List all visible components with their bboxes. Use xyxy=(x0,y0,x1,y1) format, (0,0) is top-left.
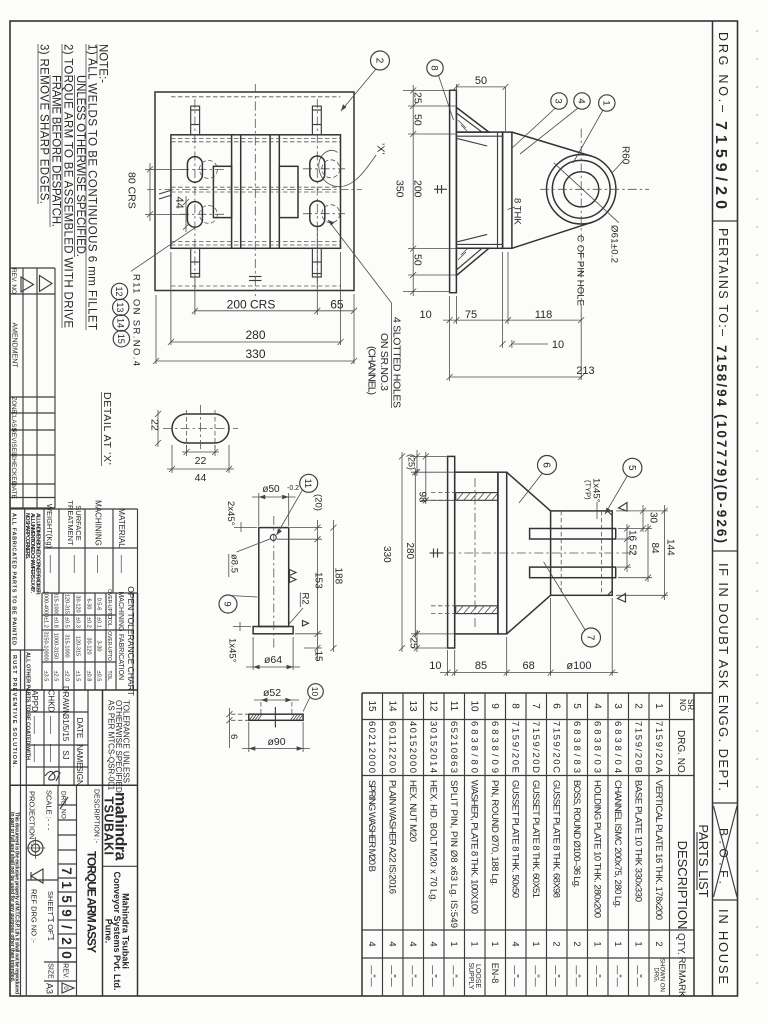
svg-text:65210863: 65210863 xyxy=(448,721,459,773)
svg-text:22: 22 xyxy=(195,455,207,467)
weld symbol bottom center xyxy=(249,276,262,278)
svg-text:REV. NO: REV. NO xyxy=(10,268,17,294)
pin body xyxy=(259,528,289,627)
svg-text:±0.5: ±0.5 xyxy=(64,617,70,628)
svg-text:ø100: ø100 xyxy=(566,660,591,672)
svg-text:’X’: ’X’ xyxy=(375,143,387,155)
top gusset xyxy=(456,107,489,132)
svg-text:ø52: ø52 xyxy=(263,687,281,699)
section mark triangles xyxy=(619,503,628,512)
slot outline xyxy=(172,414,229,443)
svg-text:——: —— xyxy=(94,555,104,573)
svg-text:OPEN TOLERANCE CHART: OPEN TOLERANCE CHART xyxy=(126,586,136,696)
svg-text:REV.: REV. xyxy=(62,963,69,979)
svg-text:13: 13 xyxy=(407,700,418,712)
svg-text:30152014: 30152014 xyxy=(427,721,438,773)
dim 80 CRS xyxy=(149,163,151,221)
gusset tapers xyxy=(507,472,551,511)
svg-text:C OF PIN HOLE: C OF PIN HOLE xyxy=(575,235,586,306)
VIEW D: pin detail xyxy=(219,474,344,670)
channel section xyxy=(456,132,502,248)
svg-text:HEX. HD. BOLT M20 x 70 Lg.: HEX. HD. BOLT M20 x 70 Lg. xyxy=(427,780,438,902)
svg-text:±1.2: ±1.2 xyxy=(43,617,49,628)
svg-text:25: 25 xyxy=(412,92,424,104)
left dim chain 25 50 200 50 and 350 xyxy=(412,85,414,296)
svg-text:2: 2 xyxy=(59,937,74,945)
svg-text:——: —— xyxy=(70,555,80,573)
svg-text:LOOSE: LOOSE xyxy=(474,964,481,988)
svg-text:in part or full and shall not: in part or full and shall not be used fo… xyxy=(9,812,15,983)
svg-text:TORQUE ARM ASSY: TORQUE ARM ASSY xyxy=(85,851,99,953)
dim dia52 xyxy=(260,702,262,714)
svg-text:200: 200 xyxy=(412,180,424,198)
revision table xyxy=(10,268,55,508)
svg-text:13: 13 xyxy=(115,302,125,312)
svg-text:—"—: —"— xyxy=(408,965,418,986)
balloons 12 13 14 15 xyxy=(111,283,127,299)
washer edge-on xyxy=(249,714,303,720)
material-machining-weight table xyxy=(10,500,138,593)
svg-text:153: 153 xyxy=(313,572,324,589)
svg-text:RUST PREVENTIVE SOLUTION.: RUST PREVENTIVE SOLUTION. xyxy=(11,655,17,767)
svg-text:11: 11 xyxy=(303,479,313,488)
svg-text:280: 280 xyxy=(404,543,415,560)
weld symbol xyxy=(434,188,447,190)
dim 44 xyxy=(171,445,173,473)
svg-text:6: 6 xyxy=(541,462,552,468)
VIEW A: plan view of torque arm base assembly xyxy=(111,51,402,408)
svg-text:SHEET 1 OF 1: SHEET 1 OF 1 xyxy=(46,891,55,941)
svg-text:10: 10 xyxy=(419,309,431,321)
leader 4 slotted holes xyxy=(328,220,392,303)
balloon 5 xyxy=(623,458,642,477)
svg-text:2) TORQUE ARM TO BE ASSEM: 2) TORQUE ARM TO BE ASSEMBLED WITH DRIVE xyxy=(62,44,74,328)
svg-text:±0.3: ±0.3 xyxy=(75,617,81,628)
svg-text:ø8.5: ø8.5 xyxy=(229,554,240,573)
svg-text:HOLDING PLATE 10 THK. 280x200: HOLDING PLATE 10 THK. 280x200 xyxy=(591,780,602,918)
VIEW B: side elevation with pin hole xyxy=(394,60,650,381)
svg-text:—"—: —"— xyxy=(592,965,602,986)
svg-text:80 CRS: 80 CRS xyxy=(126,172,138,209)
svg-text:44: 44 xyxy=(173,196,185,208)
slotted holes xyxy=(187,157,202,183)
svg-text:30-120: 30-120 xyxy=(86,637,92,654)
weld symbol xyxy=(430,552,443,554)
svg-text:R2: R2 xyxy=(300,593,311,605)
svg-text:3: 3 xyxy=(612,703,623,709)
svg-text:9: 9 xyxy=(489,703,500,709)
svg-text:85: 85 xyxy=(475,660,487,672)
svg-text:—"—: —"— xyxy=(428,965,438,986)
svg-text:3) REMOVE SHARP EDGES.: 3) REMOVE SHARP EDGES. xyxy=(38,44,50,204)
svg-text:Pune.: Pune. xyxy=(104,919,114,944)
title block xyxy=(9,593,138,996)
svg-text:10: 10 xyxy=(552,339,564,351)
svg-text:50: 50 xyxy=(412,254,424,266)
base plate edge-on xyxy=(448,456,455,648)
svg-text:TOL.: TOL. xyxy=(106,617,112,628)
hidden flange lines xyxy=(171,138,341,140)
balloon 1 xyxy=(599,95,615,111)
svg-text:0.5-6: 0.5-6 xyxy=(96,598,102,611)
svg-text:MATERIAL: MATERIAL xyxy=(117,508,126,548)
svg-text:UNLESS OTHERWISE SPECIFIED.: UNLESS OTHERWISE SPECIFIED. xyxy=(74,75,86,257)
svg-text:1: 1 xyxy=(489,941,500,946)
dia 61 leader diagonal xyxy=(554,163,619,223)
svg-text:4: 4 xyxy=(576,98,587,103)
svg-text:—"—: —"— xyxy=(510,965,520,986)
svg-text:DESCRIPTION: DESCRIPTION xyxy=(675,841,690,930)
svg-text:PIN, ROUND Ø70, 188 Lg.: PIN, ROUND Ø70, 188 Lg. xyxy=(489,780,500,886)
svg-text:——: —— xyxy=(30,716,40,734)
svg-text:213: 213 xyxy=(576,365,594,377)
svg-text:2: 2 xyxy=(374,58,385,64)
svg-text:PARTS LIST: PARTS LIST xyxy=(696,824,711,897)
svg-text:200 CRS: 200 CRS xyxy=(227,298,276,312)
svg-text:Ø61±0.2: Ø61±0.2 xyxy=(609,225,620,263)
svg-text:14: 14 xyxy=(116,318,126,328)
open tolerance chart xyxy=(42,586,138,696)
svg-text:7158/94 (107779)(D-926): 7158/94 (107779)(D-926) xyxy=(714,345,729,543)
svg-text:12: 12 xyxy=(427,700,438,712)
svg-text:——: —— xyxy=(47,744,57,762)
VIEW C: top view of torque arm xyxy=(381,450,676,676)
svg-text:FRAME BEFORE DESPATCH.: FRAME BEFORE DESPATCH. xyxy=(50,75,62,227)
balloon 11 (split pin) xyxy=(300,474,318,492)
centerlines xyxy=(194,99,196,288)
svg-text:——: —— xyxy=(117,555,127,573)
dim 200 CRS xyxy=(194,279,196,315)
svg-text:DRG,: DRG, xyxy=(652,968,658,983)
signature squiggle xyxy=(45,771,60,781)
svg-text:OVER-UPTO: OVER-UPTO xyxy=(106,589,112,619)
svg-text:±0.5: ±0.5 xyxy=(96,671,102,682)
svg-text:1) ALL WELDS TO BE CONTIN: 1) ALL WELDS TO BE CONTINUOUS 6 mm FILLE… xyxy=(86,44,98,330)
svg-text:7: 7 xyxy=(59,867,74,875)
svg-text:SJ: SJ xyxy=(61,750,70,759)
VIEW E: washer detail xyxy=(226,684,323,752)
right dims 30 16 52 84 144 xyxy=(616,510,668,512)
dim 50 top xyxy=(455,84,457,92)
svg-text:9: 9 xyxy=(222,601,233,606)
svg-text:15: 15 xyxy=(366,700,377,712)
svg-text:ALL OTHER PARTS TO BE COATED W: ALL OTHER PARTS TO BE COATED WITH xyxy=(25,652,31,760)
base plate 330x330 outline xyxy=(155,92,354,291)
svg-text:MACHINING: MACHINING xyxy=(94,500,103,546)
weld symbol left edge xyxy=(159,190,172,194)
svg-text:(20): (20) xyxy=(313,494,324,511)
svg-text:IF IN DOUBT ASK ENGG. DEP: IF IN DOUBT ASK ENGG. DEPT. xyxy=(716,563,731,791)
holding plate / channel outline xyxy=(171,135,341,249)
svg-text:2: 2 xyxy=(550,941,561,946)
svg-text:1x45°: 1x45° xyxy=(227,638,238,663)
svg-text:6: 6 xyxy=(550,703,561,709)
svg-text:4: 4 xyxy=(407,941,418,946)
balloon 7 xyxy=(582,628,601,647)
svg-text:SPRING WASHER M20 B: SPRING WASHER M20 B xyxy=(366,780,377,872)
svg-text:1: 1 xyxy=(468,941,479,946)
svg-text:1: 1 xyxy=(591,941,602,946)
svg-text:FABRICATION: FABRICATION xyxy=(117,634,124,680)
svg-text:—"—: —"— xyxy=(449,965,459,986)
svg-text:—"—: —"— xyxy=(572,965,582,986)
svg-text:12: 12 xyxy=(114,286,124,296)
svg-text:68: 68 xyxy=(522,660,534,672)
svg-text:4: 4 xyxy=(427,941,438,946)
svg-text:SIZE: SIZE xyxy=(47,963,54,979)
svg-text:ø64: ø64 xyxy=(264,654,282,666)
svg-text:14: 14 xyxy=(386,700,397,712)
svg-text:DRG. NO.: DRG. NO. xyxy=(675,730,686,776)
svg-text:VERTICAL PLATE 16 THK. 178x200: VERTICAL PLATE 16 THK. 178x200 xyxy=(653,780,664,920)
svg-text:8: 8 xyxy=(509,703,520,709)
torque arm tangent outline xyxy=(512,132,591,156)
bottom gusset xyxy=(456,248,489,275)
svg-text:R60: R60 xyxy=(620,146,631,165)
svg-text:3150-10000: 3150-10000 xyxy=(43,631,49,660)
balloon 3 xyxy=(551,93,567,109)
svg-text:50: 50 xyxy=(412,114,424,126)
svg-text:1: 1 xyxy=(632,941,643,946)
svg-text:±0.1: ±0.1 xyxy=(96,617,102,628)
channel flange sections hatched xyxy=(456,493,498,501)
balloon 8 xyxy=(427,60,443,76)
svg-text:44: 44 xyxy=(195,472,207,484)
svg-text:15: 15 xyxy=(313,651,324,663)
svg-text:WEIGHT(Kg): WEIGHT(Kg) xyxy=(45,504,54,549)
svg-text:TREATMENT: TREATMENT xyxy=(66,500,75,546)
svg-text:DRAWN: DRAWN xyxy=(61,686,70,716)
svg-text:DATE: DATE xyxy=(10,482,17,500)
boss outline xyxy=(551,511,613,595)
svg-text:3-30: 3-30 xyxy=(96,640,102,651)
balloon 9 xyxy=(219,595,237,613)
balloon 6 xyxy=(538,456,557,475)
svg-text:1: 1 xyxy=(530,941,541,946)
dim 10 plate thickness xyxy=(502,252,504,348)
svg-text:4: 4 xyxy=(386,941,397,946)
svg-text:NAME: NAME xyxy=(75,744,84,767)
svg-text:ALL FABRICATED PARTS TO BE PAI: ALL FABRICATED PARTS TO BE PAINTED xyxy=(11,513,17,645)
svg-text:DESCRIPTION :-: DESCRIPTION :- xyxy=(93,789,100,844)
svg-text:30-120: 30-120 xyxy=(75,595,81,612)
svg-text:1: 1 xyxy=(612,941,623,946)
svg-text:120-315: 120-315 xyxy=(64,594,70,614)
svg-text:WASHER, PLATE 8 THK. 100X100: WASHER, PLATE 8 THK. 100X100 xyxy=(468,780,479,914)
svg-text:/: / xyxy=(59,925,74,929)
svg-text:6: 6 xyxy=(228,734,239,739)
svg-text:280: 280 xyxy=(245,328,265,342)
svg-text:(25): (25) xyxy=(407,454,417,470)
split pin hole xyxy=(270,535,276,541)
base plate edge-on xyxy=(450,90,457,292)
svg-text:1: 1 xyxy=(448,941,459,946)
svg-text:——: —— xyxy=(46,555,56,573)
vertical plate xyxy=(498,472,507,634)
svg-text:40152000: 40152000 xyxy=(407,721,418,773)
svg-text:—"—: —"— xyxy=(387,965,397,986)
svg-text:98: 98 xyxy=(417,492,428,504)
tiny fabrication notes column xyxy=(10,509,44,767)
vertical plates cross bars xyxy=(530,529,616,540)
svg-text:EN-8: EN-8 xyxy=(490,963,500,984)
dim 330 xyxy=(155,295,157,364)
svg-text:315-1000: 315-1000 xyxy=(53,592,59,615)
svg-text:R11 ON SR.NO.4: R11 ON SR.NO.4 xyxy=(131,274,142,366)
svg-text:BOSS, ROUND Ø100–36 Lg.: BOSS, ROUND Ø100–36 Lg. xyxy=(571,780,582,888)
svg-text:2x45°: 2x45° xyxy=(225,501,236,526)
svg-text:7: 7 xyxy=(585,635,596,641)
parts list table xyxy=(362,693,713,998)
boss circles xyxy=(547,155,616,224)
svg-text:6-30: 6-30 xyxy=(86,598,92,609)
perforation dots right margin xyxy=(756,30,758,1010)
vertical plate edges xyxy=(231,135,233,249)
channel xyxy=(455,472,498,634)
svg-text:SPLIT PIN, PIN Ø8 x63 Lg. IS:5: SPLIT PIN, PIN Ø8 x63 Lg. IS:549 xyxy=(448,780,459,928)
svg-text:NO: NO xyxy=(678,699,687,711)
svg-text:10: 10 xyxy=(429,660,441,672)
svg-text:AMENDMENT: AMENDMENT xyxy=(11,322,18,368)
svg-text:——: —— xyxy=(30,744,40,762)
svg-text:1000-3150: 1000-3150 xyxy=(53,633,59,659)
right dim chain 153 15 xyxy=(290,527,322,529)
svg-text:10: 10 xyxy=(310,687,320,697)
DETAIL AT X: slotted hole detail xyxy=(101,392,238,484)
svg-text:22: 22 xyxy=(149,419,161,431)
svg-text:—"—: —"— xyxy=(613,965,623,986)
svg-text:NO SHARP CORNERS.: NO SHARP CORNERS. xyxy=(24,513,30,559)
svg-text:HEX. NUT M20: HEX. NUT M20 xyxy=(407,780,418,842)
svg-text:65: 65 xyxy=(330,298,344,312)
centerlines xyxy=(540,188,649,190)
dim 6 thickness xyxy=(231,713,248,715)
svg-text:1: 1 xyxy=(600,100,611,105)
dim dia64 xyxy=(252,637,254,670)
svg-text:(CHANNEL): (CHANNEL) xyxy=(366,346,378,395)
balloon 4 xyxy=(574,93,590,109)
svg-text:4: 4 xyxy=(509,941,520,946)
svg-text:4: 4 xyxy=(591,703,602,709)
svg-text:AS PER MTCS-QSR-001: AS PER MTCS-QSR-001 xyxy=(107,700,116,791)
svg-text:±2.5: ±2.5 xyxy=(53,671,59,682)
svg-text:REF DRG NO :-: REF DRG NO :- xyxy=(30,889,39,943)
svg-text:75: 75 xyxy=(465,309,477,321)
svg-text:30: 30 xyxy=(648,512,659,524)
revision triangle 2 xyxy=(40,276,53,292)
svg-text:84: 84 xyxy=(649,543,660,555)
svg-text:MACHINING: MACHINING xyxy=(117,591,124,631)
svg-text:DATE: DATE xyxy=(75,718,84,739)
svg-text:ON SR.NO.3: ON SR.NO.3 xyxy=(378,333,390,391)
svg-text:BASE PLATE 10 THK 330x330: BASE PLATE 10 THK 330x330 xyxy=(632,780,643,902)
svg-text:9: 9 xyxy=(59,909,74,917)
pin head xyxy=(253,627,293,634)
svg-text:10: 10 xyxy=(468,700,479,712)
dim dia50-0.2 xyxy=(258,493,260,526)
svg-text:5: 5 xyxy=(626,465,637,471)
svg-text:CHKD: CHKD xyxy=(47,690,56,713)
svg-text:CHANNEL ISMC 200x75, 280 Lg.: CHANNEL ISMC 200x75, 280 Lg. xyxy=(612,780,623,908)
svg-text:60112200: 60112200 xyxy=(386,721,397,773)
bottom dim chain 10 75 118 xyxy=(449,296,451,381)
svg-text:5: 5 xyxy=(571,703,582,709)
svg-text:—"—: —"— xyxy=(531,965,541,986)
svg-text:—"—: —"— xyxy=(633,965,643,986)
svg-text:0: 0 xyxy=(59,951,74,959)
svg-text:±2.0: ±2.0 xyxy=(64,671,70,682)
svg-text:60212000: 60212000 xyxy=(366,721,377,773)
svg-text:REMARK: REMARK xyxy=(676,957,687,998)
svg-text:±0.8: ±0.8 xyxy=(53,617,59,628)
svg-text:TSUBAKI: TSUBAKI xyxy=(102,796,116,855)
svg-text:GUSSET PLATE 8 THK. 50x50: GUSSET PLATE 8 THK. 50x50 xyxy=(509,780,520,898)
svg-text:DRG. NO.: DRG. NO. xyxy=(60,791,67,821)
svg-text:OVER-UPTO: OVER-UPTO xyxy=(106,631,112,661)
svg-text:GUSSET PLATE 8 THK. 68X98: GUSSET PLATE 8 THK. 68X98 xyxy=(550,780,561,898)
dim 22 vertical xyxy=(157,410,159,447)
svg-text:7: 7 xyxy=(530,703,541,709)
svg-text:SCALE :- - -: SCALE :- - - xyxy=(45,790,54,831)
svg-text:1000-4000: 1000-4000 xyxy=(43,591,49,617)
svg-text:±1.5: ±1.5 xyxy=(75,671,81,682)
svg-text:GUSSET PLATE 8 THK. 60X51: GUSSET PLATE 8 THK. 60X51 xyxy=(530,780,541,898)
svg-text:188: 188 xyxy=(333,568,344,585)
svg-text:TOL.: TOL. xyxy=(106,670,112,681)
svg-text:QTY.: QTY. xyxy=(675,933,686,955)
svg-text:2: 2 xyxy=(571,941,582,946)
svg-text:2: 2 xyxy=(653,941,664,946)
svg-text:8: 8 xyxy=(429,65,440,70)
svg-text:4: 4 xyxy=(366,941,377,946)
weld marks on pin xyxy=(290,570,297,576)
svg-text:52: 52 xyxy=(627,545,638,557)
svg-text:25: 25 xyxy=(408,638,419,650)
svg-text:5: 5 xyxy=(59,895,74,903)
svg-text:——: —— xyxy=(47,716,57,734)
centerlines xyxy=(429,552,639,554)
svg-text:SIGN: SIGN xyxy=(75,766,84,786)
svg-text:11: 11 xyxy=(448,701,459,712)
dim 44 at lower-left slot xyxy=(185,196,187,232)
vertical plate edge-on xyxy=(503,132,512,248)
svg-text:±3.5: ±3.5 xyxy=(43,671,49,682)
svg-text:(TYP): (TYP) xyxy=(584,480,593,500)
svg-text:PERTAINS TO:–: PERTAINS TO:– xyxy=(716,228,730,336)
svg-text:IN HOUSE: IN HOUSE xyxy=(716,909,731,984)
svg-text:—"—: —"— xyxy=(367,965,377,986)
bottom dims 10 85 68 d100 xyxy=(447,650,449,676)
top title strip (rotated sheet header) xyxy=(712,21,738,996)
svg-text:144: 144 xyxy=(665,539,676,556)
svg-text:2: 2 xyxy=(632,703,643,709)
svg-text:ø90: ø90 xyxy=(267,736,285,748)
boss plates in plan xyxy=(213,166,231,217)
svg-text:31/5/15: 31/5/15 xyxy=(61,715,70,742)
svg-text:3: 3 xyxy=(553,98,564,103)
svg-text:8 THK: 8 THK xyxy=(512,198,523,225)
balloon 10 xyxy=(308,684,324,700)
svg-text:330: 330 xyxy=(381,546,392,563)
svg-text:DETAIL AT ’X’: DETAIL AT ’X’ xyxy=(101,392,113,465)
svg-text:350: 350 xyxy=(394,180,406,198)
svg-text:120-315: 120-315 xyxy=(75,636,81,656)
svg-text:1: 1 xyxy=(59,881,74,889)
svg-text:4 SLOTTED HOLES: 4 SLOTTED HOLES xyxy=(391,317,403,408)
general notes xyxy=(38,44,109,330)
svg-text:50: 50 xyxy=(475,75,487,87)
svg-text:PLAIN WASHER A22 IS:2016: PLAIN WASHER A22 IS:2016 xyxy=(386,780,397,894)
